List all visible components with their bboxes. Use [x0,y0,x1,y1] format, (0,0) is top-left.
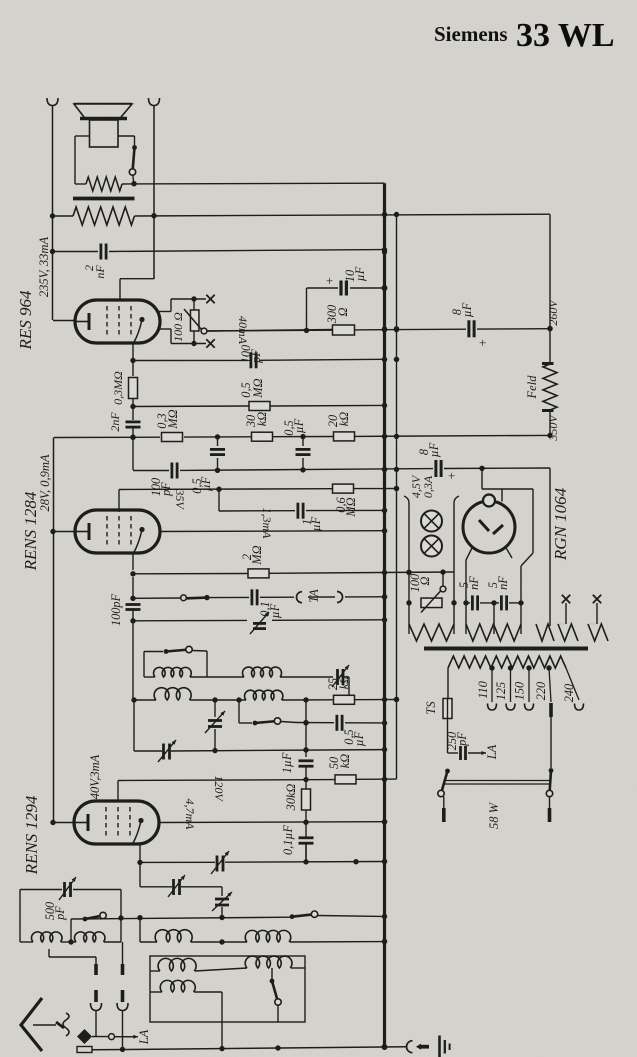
wire line 723 [296,720,387,726]
wire line 252 [50,247,387,254]
wire line 330 (40mA to bus) [207,326,553,333]
wire hum-bucking loop right [118,136,135,146]
coil L1 [154,667,192,677]
test point X w2 [588,595,601,624]
resistor 0,6 MOhm [333,484,359,517]
svg-text:µF: µF [460,302,474,317]
svg-text:MΩ: MΩ [251,378,265,398]
wire coil line 700 [131,697,399,703]
resistor 0,3 MOhm (line437) [155,409,183,441]
label TA [307,589,321,603]
svg-text:Ω: Ω [336,307,350,316]
lightning arrester [56,1013,69,1036]
svg-text:110: 110 [476,681,490,699]
connector chassis (socket) [407,1041,430,1053]
resistor 25 kOhm [326,675,355,705]
svg-text:0,1µF: 0,1µF [281,825,295,855]
wire rectifier filament left [463,546,473,634]
wire line 216 bus1 to right bus [50,212,550,219]
capacitor 100pF (detector) [239,345,263,369]
svg-text:µF: µF [268,603,282,618]
switch S2 (TA switch) [181,595,210,601]
right bus (x550) [547,214,552,626]
wire line 437 (350V feed) [54,433,553,440]
wire RENS1284 bottom chain [130,553,135,600]
wire antenna coil line [20,919,121,945]
trimmer capacitor (line751) [158,740,176,762]
svg-text:33 WL: 33 WL [516,17,615,54]
svg-text:35V: 35V [173,488,187,510]
potentiometer 100 Ohm (heater) [408,574,442,613]
svg-text:125: 125 [494,682,508,700]
svg-text:+: + [326,273,333,288]
svg-text:4,7mA: 4,7mA [183,799,197,831]
coil L3 [154,688,191,700]
label 350V [546,414,560,442]
wire cathode bus segment B [53,438,55,823]
label 35V [173,488,187,510]
svg-text:RGN 1064: RGN 1064 [551,487,570,561]
heater winding (rectifier) [466,624,521,641]
wire grid RENS1284 drop [118,490,120,513]
wire rectifier filament right [505,546,524,634]
transformer box [150,956,305,1022]
wire x140 to coil [139,918,141,942]
svg-text:pF: pF [249,349,263,364]
label tube RENS 1294 [22,795,41,875]
label 260V [546,299,560,326]
wire line 886 [140,886,222,888]
svg-text:TA: TA [307,589,321,603]
test point X upper [206,295,214,303]
wire grid RENS1294 drop [117,781,119,802]
wire line 573 (2MOhm line) [133,569,454,575]
wire rectifier anode [482,468,533,566]
plug pin left [91,957,102,1036]
wire coil line 677 [144,676,333,678]
title Siemens [434,22,508,46]
svg-text:235V, 33mA: 235V, 33mA [37,237,51,298]
svg-text:120V: 120V [212,775,226,802]
resistor 0,3 MOhm vertical [111,371,138,420]
svg-text:+: + [448,468,455,483]
trimmer capacitor (line862) [211,851,229,874]
svg-text:100 Ω: 100 Ω [171,312,185,342]
fuse (diamond) [77,1029,92,1053]
mains switch left [438,769,450,822]
label tube RES 964 [16,290,35,351]
wire 500pF loop [20,890,121,943]
svg-text:+: + [479,335,486,350]
coil L10 [245,956,292,968]
rectifier filament bars [479,520,503,534]
svg-text:1,3mA: 1,3mA [260,508,274,540]
field coil Feld [525,364,557,411]
capacitor 2nF (lower) [108,412,141,470]
label 240 [562,684,576,702]
switch S6 (antenna) [83,912,107,921]
second bus (x396) [394,214,399,779]
svg-text:nF: nF [467,576,481,590]
switch S4 [239,718,296,726]
svg-text:MΩ: MΩ [166,409,180,429]
svg-text:µF: µF [309,516,323,531]
coil L4 [245,690,283,700]
wire corner x239 [238,700,240,723]
wire grid RES964 from speaker bus [120,279,154,301]
wire lamp rail right [451,496,459,634]
svg-text:1µF: 1µF [280,752,294,773]
svg-text:LA: LA [485,744,499,760]
resistor 50 kOhm [327,754,356,784]
wire x306 tail [305,843,307,862]
tap lead 150 [525,668,534,710]
label tube RENS 1284 [21,491,40,571]
wire box bottom exits [221,1008,223,1048]
trimmer capacitor (line677) [332,665,349,696]
wire line 489 (35V line) [119,486,399,492]
power transformer primary [448,656,566,671]
capacitor 1uF (x306) [280,752,314,782]
main bus (thick, x384) [382,183,388,1050]
svg-text:LA: LA [137,1029,151,1045]
coil L7 [155,930,192,942]
plug pin right [117,942,128,1049]
node antenna-terminal left (cup) on cathode bus [47,98,58,320]
speaker voice coil [90,120,119,147]
heater winding aux2 [588,624,608,641]
svg-text:240: 240 [562,684,576,702]
mains switch right [546,717,553,822]
svg-text:28V, 0,9mA: 28V, 0,9mA [38,454,52,511]
arrow LA (mains) [468,744,499,760]
tap lead 220 with plug [549,668,551,717]
wire line 862 [140,859,387,865]
capacitor 0,1 uF (TA) [252,589,282,618]
capacitor 250 pF [445,732,469,760]
wire L11 leads [150,992,222,1008]
wire line 751 [134,700,387,753]
tap lead 110 [488,668,497,710]
tap lead 240 [566,668,584,710]
HV winding [536,624,554,641]
wire line 779 (120V line) [118,777,397,782]
svg-text:30kΩ: 30kΩ [284,784,298,812]
svg-text:220: 220 [534,682,548,700]
capacitor 100pF (osc) [109,593,141,700]
label 235V 33mA [37,237,51,298]
svg-text:kΩ: kΩ [337,675,351,689]
svg-text:kΩ: kΩ [338,754,352,768]
resistor 20 kOhm [326,412,355,441]
tetrode RENS 1284 [75,510,160,553]
label tube RGN 1064 [551,487,570,561]
svg-text:100pF: 100pF [109,593,123,626]
label LA (left) [137,1029,151,1045]
wire line 511 (1uF line) [219,489,387,513]
heater winding aux1 [558,624,578,641]
lamp LP2 [421,536,442,557]
test point X w1 [558,595,570,624]
node terminal (cup) on speaker bus [149,98,160,279]
svg-text:40V,3mA: 40V,3mA [88,754,102,799]
output transformer secondary (zigzag) [73,207,135,225]
wire vertical x140 (RENS1294 bottom) [137,844,142,887]
output transformer core [73,197,135,201]
connector TA left [297,592,303,603]
svg-text:260V: 260V [546,299,560,326]
svg-text:150: 150 [513,682,527,700]
trimmer capacitor vertical x222 [212,887,232,918]
capacitor 10uF [307,266,388,330]
speaker LS horn [74,104,132,119]
svg-text:kΩ: kΩ [255,412,269,426]
rectifier RGN 1064 envelope [463,495,515,554]
label 58W [487,801,501,829]
label 125 [494,682,508,700]
svg-text:RENS 1294: RENS 1294 [22,795,41,875]
wire line 360 (100pF line) [133,357,399,363]
ground symbol [440,1036,450,1057]
pentode RENS 1294 [74,801,159,844]
coil L5 antenna [31,932,62,942]
capacitor 0,5uF (hang x217) [190,437,225,494]
svg-text:pF: pF [53,906,67,921]
svg-text:µF: µF [292,418,306,433]
svg-text:TS: TS [424,701,438,715]
trimmer capacitor (line620) [250,612,269,634]
svg-text:µF: µF [427,442,441,457]
wire anode RENS1294 line 822 [159,819,387,825]
label 1,3mA [260,508,274,540]
triode RES 964 [75,300,160,343]
coil L9 [158,958,196,971]
svg-text:58 W: 58 W [487,801,501,829]
wire 40mA line (wiper to 300 Ohm) [207,330,336,332]
svg-text:Ω: Ω [418,576,432,585]
wire screen RES964 bottom lead [159,329,206,346]
wire line 406 [133,403,387,408]
connector TA right [337,592,343,603]
capacitor 8uF (line470) [417,442,455,483]
wire speaker line y184 [75,181,385,186]
potentiometer 100 Ohm (hum pot) [171,299,207,344]
wire lamp rail left [404,496,412,634]
fuse TS [424,668,452,753]
svg-text:Feld: Feld [525,375,539,400]
svg-text:RES 964: RES 964 [16,290,35,351]
wire hum-bucking loop left [75,136,90,184]
coil L2 [242,667,281,677]
wire coils inside box [150,968,305,971]
svg-text:0,3A: 0,3A [421,475,435,498]
label 110 [476,681,490,699]
resistor 30 kOhm vertical [284,780,311,823]
label 4,5V 0,3A [409,474,435,498]
trimmer capacitor vertical x215 [205,700,225,751]
resistor 30 kOhm [244,412,273,441]
test point X lower [206,339,214,347]
svg-text:MΩ: MΩ [250,545,264,565]
svg-text:nF: nF [93,265,107,279]
tap lead 125 [506,668,515,710]
wire anode RES964 top lead [159,296,206,311]
svg-text:0,3MΩ: 0,3MΩ [111,371,125,405]
wire line 470 (8uF line) [133,466,550,473]
wire pot wiper drop [440,572,446,592]
svg-text:350V: 350V [546,414,560,442]
capacitor 2nF (top) [82,244,107,279]
svg-text:µF: µF [352,731,366,746]
wire 5nF line [466,600,521,634]
trimmer capacitor (line886) [168,875,185,897]
svg-text:kΩ: kΩ [337,412,351,426]
resistor 300 Ohm [325,305,355,335]
heater winding (lamps) [409,624,454,641]
wire line 620 (tuning line) [133,617,387,622]
label 40V 3mA [88,754,102,799]
trimmer capacitor 500 pF [43,877,76,921]
wire pin taps [49,949,96,957]
mains switch link [444,781,549,785]
svg-text:µF: µF [353,266,367,281]
label 28V 0,9mA [38,454,52,511]
svg-text:MΩ: MΩ [344,497,358,517]
label 120V [212,775,226,802]
lamp LP1 [421,511,442,532]
socket LA line [92,1034,138,1040]
switch S1 speaker [129,145,137,183]
capacitor 8uF (260V) [450,302,486,350]
svg-text:nF: nF [496,576,510,590]
label 150 [513,682,527,700]
wire line 917 [71,914,387,921]
wire vertical x306 segment [303,700,308,757]
wire coil bypass loop [144,651,207,677]
capacitor 0,5uF (line723) [337,715,366,747]
switch S5 (osc) [290,911,318,919]
wire anode RENS1284 line 531 [159,528,387,533]
resistor 2 MOhm [240,545,269,578]
svg-text:Siemens: Siemens [434,22,508,46]
wire coil line 942 [140,939,387,945]
coil L11 [160,980,195,992]
wire cathode RES964 to bus [53,320,75,322]
wire cathode RENS1284 [50,529,75,534]
switch S7 (in box) [270,968,282,1022]
antenna symbol [21,998,56,1051]
resistor hum-bucking (zigzag) [86,177,122,191]
wire line 597 (TA line) [130,594,387,601]
wire cathode RENS1294 [50,820,74,825]
capacitor 0,5uF (hang x303) [282,418,311,470]
wire bottom bus line [92,1044,406,1052]
capacitor 5nF left [457,576,481,611]
svg-text:2nF: 2nF [108,412,122,432]
title 33 WL [516,17,615,54]
capacitor 1uF (line511) [298,503,323,532]
label 220 [534,682,548,700]
power transformer core [424,647,588,651]
label 40mA [236,316,250,345]
capacitor 5nF right [486,576,510,611]
capacitor 100 pF (line470) [149,463,177,497]
coil L8 [245,930,291,942]
coil L6 antenna [74,932,104,942]
resistor 0,5 MOhm [239,378,270,410]
svg-text:pF: pF [455,732,469,747]
switch S3 wave range (top) [144,646,207,654]
label 4,7mA [183,799,197,831]
wire anode chain vertical x133 [130,343,135,376]
capacitor 0,1uF (x306) [281,822,314,862]
